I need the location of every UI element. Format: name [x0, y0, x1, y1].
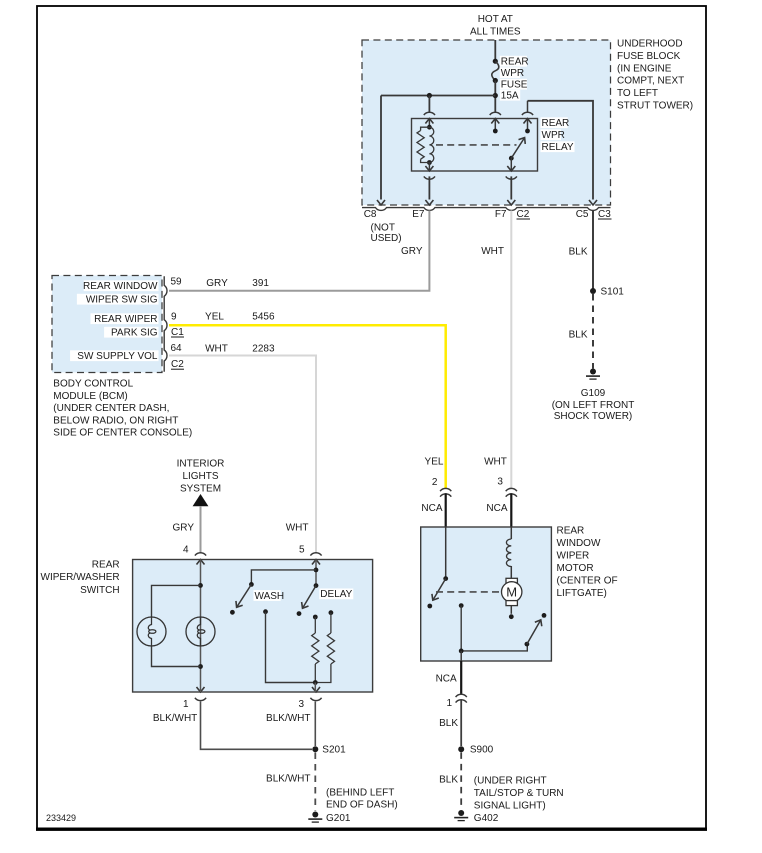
svg-text:PARK SIG: PARK SIG — [111, 328, 158, 339]
svg-text:ALL TIMES: ALL TIMES — [470, 27, 521, 38]
svg-text:REAR: REAR — [501, 57, 529, 68]
svg-text:(UNDER RIGHT: (UNDER RIGHT — [474, 776, 547, 787]
svg-text:C2: C2 — [171, 359, 184, 370]
svg-text:BLK: BLK — [569, 247, 588, 258]
svg-text:SWITCH: SWITCH — [80, 585, 119, 596]
svg-text:BLK: BLK — [439, 718, 458, 729]
svg-text:RELAY: RELAY — [542, 142, 574, 153]
svg-text:C8: C8 — [364, 209, 377, 220]
svg-text:1: 1 — [446, 698, 452, 709]
svg-text:MODULE (BCM): MODULE (BCM) — [53, 391, 127, 402]
svg-text:(NOT: (NOT — [371, 223, 395, 234]
svg-text:2: 2 — [432, 477, 438, 488]
svg-text:WHT: WHT — [484, 457, 507, 468]
svg-text:(IN ENGINE: (IN ENGINE — [617, 63, 672, 74]
svg-text:NCA: NCA — [436, 674, 457, 685]
svg-text:E7: E7 — [412, 209, 425, 220]
svg-text:59: 59 — [171, 277, 183, 288]
svg-text:FUSE BLOCK: FUSE BLOCK — [617, 51, 681, 62]
svg-text:GRY: GRY — [206, 278, 228, 289]
svg-text:WHT: WHT — [481, 246, 504, 257]
svg-text:GRY: GRY — [173, 523, 195, 534]
svg-text:SHOCK TOWER): SHOCK TOWER) — [554, 411, 633, 422]
svg-text:UNDERHOOD: UNDERHOOD — [617, 39, 683, 50]
svg-text:M: M — [506, 585, 517, 600]
svg-text:BODY CONTROL: BODY CONTROL — [53, 378, 133, 389]
svg-text:15A: 15A — [501, 91, 519, 102]
svg-text:SIDE OF CENTER CONSOLE): SIDE OF CENTER CONSOLE) — [53, 428, 192, 439]
svg-text:F7: F7 — [495, 209, 507, 220]
svg-text:GRY: GRY — [401, 246, 423, 257]
svg-text:(CENTER OF: (CENTER OF — [557, 576, 618, 587]
svg-text:LIGHTS: LIGHTS — [182, 471, 218, 482]
svg-text:REAR: REAR — [542, 118, 570, 129]
svg-text:WIPER: WIPER — [557, 551, 590, 562]
svg-text:LIFTGATE): LIFTGATE) — [557, 588, 607, 599]
svg-text:SYSTEM: SYSTEM — [180, 484, 221, 495]
svg-text:(UNDER CENTER DASH,: (UNDER CENTER DASH, — [53, 403, 169, 414]
svg-text:G109: G109 — [581, 388, 606, 399]
svg-text:C3: C3 — [598, 209, 611, 220]
svg-text:END OF DASH): END OF DASH) — [326, 800, 398, 811]
svg-text:YEL: YEL — [425, 457, 444, 468]
svg-text:64: 64 — [171, 343, 183, 354]
svg-text:INTERIOR: INTERIOR — [177, 459, 225, 470]
svg-text:WHT: WHT — [286, 523, 309, 534]
svg-text:9: 9 — [171, 311, 177, 322]
svg-text:WHT: WHT — [205, 344, 228, 355]
svg-text:1: 1 — [183, 699, 189, 710]
svg-text:S201: S201 — [322, 745, 346, 756]
svg-text:3: 3 — [497, 476, 503, 487]
svg-text:BLK/WHT: BLK/WHT — [266, 713, 310, 724]
svg-text:WPR: WPR — [501, 68, 524, 79]
svg-text:SW SUPPLY VOL: SW SUPPLY VOL — [77, 351, 158, 362]
svg-text:5: 5 — [299, 545, 305, 556]
svg-text:YEL: YEL — [205, 311, 224, 322]
svg-text:WPR: WPR — [542, 130, 565, 141]
svg-text:REAR: REAR — [92, 559, 120, 570]
svg-text:BELOW RADIO, ON RIGHT: BELOW RADIO, ON RIGHT — [53, 415, 178, 426]
svg-text:REAR WINDOW: REAR WINDOW — [83, 281, 158, 292]
svg-text:4: 4 — [183, 545, 189, 556]
svg-text:S101: S101 — [601, 287, 625, 298]
svg-text:BLK/WHT: BLK/WHT — [153, 713, 197, 724]
svg-text:G201: G201 — [326, 813, 351, 824]
svg-text:WIPER SW SIG: WIPER SW SIG — [86, 295, 158, 306]
svg-text:REAR WIPER: REAR WIPER — [94, 314, 157, 325]
svg-text:WASH: WASH — [255, 591, 285, 602]
svg-text:NCA: NCA — [486, 503, 507, 514]
svg-text:HOT AT: HOT AT — [478, 14, 513, 25]
svg-text:MOTOR: MOTOR — [557, 563, 594, 574]
svg-text:2283: 2283 — [252, 344, 275, 355]
svg-text:DELAY: DELAY — [320, 589, 352, 600]
svg-text:C1: C1 — [171, 327, 184, 338]
svg-text:391: 391 — [252, 278, 269, 289]
svg-text:NCA: NCA — [421, 503, 442, 514]
svg-text:COMPT, NEXT: COMPT, NEXT — [617, 76, 684, 87]
svg-text:233429: 233429 — [46, 813, 76, 823]
svg-text:3: 3 — [298, 699, 304, 710]
svg-text:(BEHIND LEFT: (BEHIND LEFT — [326, 788, 394, 799]
svg-text:TO LEFT: TO LEFT — [617, 88, 658, 99]
svg-text:5456: 5456 — [252, 311, 275, 322]
svg-text:REAR: REAR — [557, 526, 585, 537]
svg-text:BLK/WHT: BLK/WHT — [266, 773, 310, 784]
svg-text:SIGNAL LIGHT): SIGNAL LIGHT) — [474, 800, 546, 811]
svg-text:S900: S900 — [470, 745, 494, 756]
svg-text:USED): USED) — [371, 233, 402, 244]
svg-text:TAIL/STOP & TURN: TAIL/STOP & TURN — [474, 788, 564, 799]
svg-text:WIPER/WASHER: WIPER/WASHER — [41, 572, 120, 583]
svg-text:BLK: BLK — [439, 774, 458, 785]
svg-text:BLK: BLK — [569, 330, 588, 341]
svg-text:C5: C5 — [576, 209, 589, 220]
svg-text:STRUT TOWER): STRUT TOWER) — [617, 101, 693, 112]
svg-text:(ON LEFT FRONT: (ON LEFT FRONT — [552, 400, 635, 411]
svg-text:WINDOW: WINDOW — [557, 538, 601, 549]
svg-text:FUSE: FUSE — [501, 80, 528, 91]
svg-text:C2: C2 — [517, 209, 530, 220]
svg-text:G402: G402 — [474, 813, 499, 824]
